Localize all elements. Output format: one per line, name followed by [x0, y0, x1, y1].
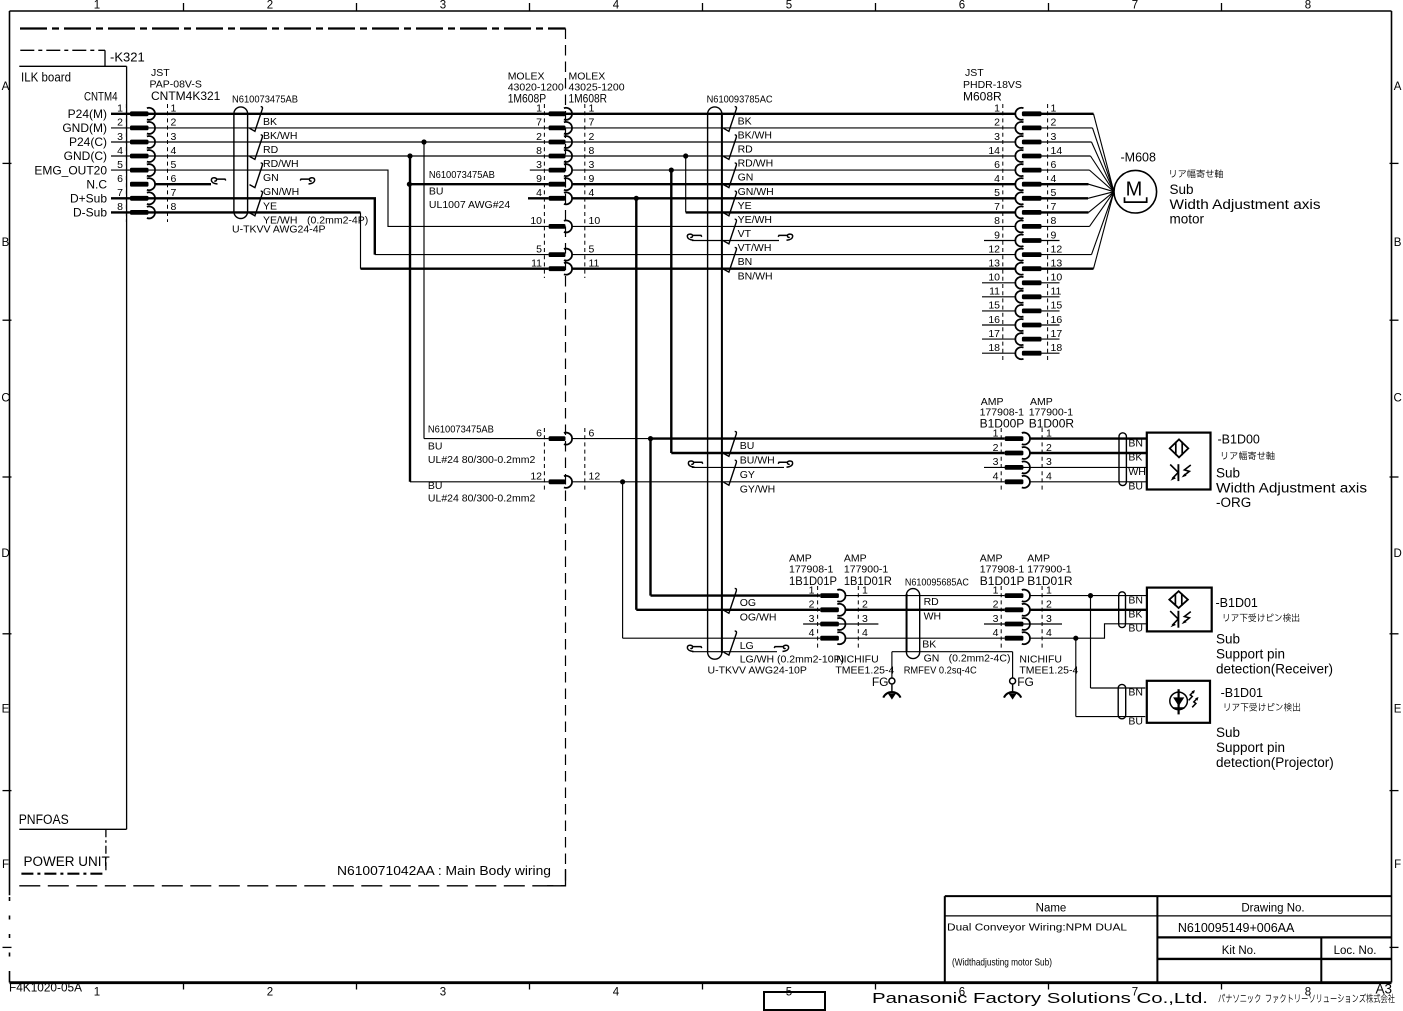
svg-text:C: C — [1, 392, 9, 404]
cable N610073475AB 4P shield oval — [234, 107, 248, 219]
svg-text:F: F — [1394, 859, 1401, 871]
svg-text:N610073475AB: N610073475AB — [232, 94, 298, 106]
svg-text:11: 11 — [531, 258, 542, 270]
svg-text:JST: JST — [965, 67, 984, 79]
node RD/WH branch junction — [407, 153, 412, 158]
sensor lead oval B1D00 — [1119, 433, 1126, 486]
svg-text:RD: RD — [738, 144, 754, 156]
svg-text:10: 10 — [988, 272, 1000, 284]
svg-text:3: 3 — [589, 159, 595, 171]
svg-text:N610073475AB: N610073475AB — [429, 169, 495, 181]
svg-text:Sub: Sub — [1170, 182, 1194, 197]
wire LG to 1B1D01P pin 4 — [623, 637, 821, 639]
svg-text:Drawing No.: Drawing No. — [1241, 902, 1304, 914]
svg-text:1: 1 — [171, 103, 177, 115]
svg-text:7: 7 — [536, 117, 542, 129]
svg-text:4: 4 — [589, 187, 595, 199]
cable N610095685AC 4C shield oval — [906, 589, 919, 659]
svg-text:BU: BU — [428, 480, 443, 492]
sensor lead oval B1D01 receiver — [1119, 592, 1126, 628]
svg-text:3: 3 — [993, 613, 999, 625]
svg-text:GN/WH: GN/WH — [263, 186, 299, 198]
svg-text:RD/WH: RD/WH — [263, 158, 299, 170]
ground FG — [1010, 678, 1016, 684]
node RD branch junction — [421, 139, 426, 144]
svg-text:6: 6 — [117, 173, 123, 185]
svg-text:8: 8 — [589, 145, 595, 157]
svg-text:D+Sub: D+Sub — [70, 192, 107, 206]
svg-text:M: M — [1126, 179, 1143, 201]
svg-text:WH: WH — [924, 610, 942, 622]
svg-text:1: 1 — [94, 986, 100, 998]
svg-text:3: 3 — [117, 131, 123, 143]
svg-text:1: 1 — [994, 103, 1000, 115]
svg-text:F4K1020-05A: F4K1020-05A — [9, 982, 82, 994]
node YE branch junction — [634, 196, 639, 201]
svg-text:4: 4 — [1046, 471, 1052, 483]
svg-text:GY: GY — [740, 469, 755, 481]
svg-text:9: 9 — [589, 173, 595, 185]
connector B1D00P / B1D00R AMP 177908-1 / 177900-1 — [1000, 428, 1002, 492]
wire GN to FG grounds — [892, 651, 1013, 653]
svg-text:2: 2 — [862, 599, 868, 611]
svg-text:GN: GN — [738, 172, 754, 184]
wire BN/WH 1M608R pin 11 to M608R pin 13 — [572, 268, 1016, 270]
svg-text:D-Sub: D-Sub — [73, 206, 107, 220]
svg-text:13: 13 — [1051, 258, 1063, 270]
svg-text:motor: motor — [1170, 211, 1205, 226]
motor M608 — [1114, 170, 1157, 213]
svg-text:4: 4 — [536, 187, 542, 199]
svg-text:3: 3 — [994, 131, 1000, 143]
svg-text:12: 12 — [1051, 243, 1063, 255]
svg-text:A3: A3 — [1376, 981, 1393, 996]
svg-text:BK: BK — [922, 639, 936, 651]
svg-text:BU: BU — [740, 440, 755, 452]
svg-text:BU: BU — [1128, 715, 1143, 727]
svg-text:VT: VT — [738, 228, 752, 240]
svg-text:16: 16 — [1051, 314, 1063, 326]
svg-text:2: 2 — [1046, 599, 1052, 611]
svg-text:YE/WH: YE/WH — [738, 214, 772, 226]
svg-text:17: 17 — [988, 328, 1000, 340]
svg-text:TMEE1.25-4: TMEE1.25-4 — [835, 665, 894, 677]
svg-text:2: 2 — [993, 442, 999, 454]
svg-text:2: 2 — [171, 117, 177, 129]
svg-text:Support pin: Support pin — [1216, 647, 1285, 662]
svg-text:14: 14 — [988, 145, 1000, 157]
svg-text:GN: GN — [924, 653, 940, 665]
wire 1M608P pin 4 stub — [528, 197, 549, 199]
svg-text:2: 2 — [1046, 442, 1052, 454]
svg-text:A: A — [1394, 81, 1402, 93]
wire YE 1M608R pin 4 to M608R pin 5 — [572, 197, 1016, 199]
wire GN/WH 1M608R pin 9 to M608R pin 4 — [572, 183, 1016, 185]
wire M608R unconnected pin stubs — [982, 282, 1016, 284]
svg-text:POWER UNIT: POWER UNIT — [24, 854, 110, 869]
wire RD/WH branch to 1M608P pin 12 — [409, 156, 411, 482]
svg-text:14: 14 — [1051, 145, 1063, 157]
svg-text:3: 3 — [1046, 613, 1052, 625]
connector J1 CNTM4 / CNTM4K321 JST PAP-08V-S — [125, 104, 127, 222]
svg-text:3: 3 — [536, 159, 542, 171]
svg-text:5: 5 — [589, 243, 595, 255]
svg-text:BK: BK — [738, 115, 752, 127]
wire RD P24(C) net — [111, 141, 1016, 143]
node BU branch junction — [648, 436, 653, 441]
svg-text:GY/WH: GY/WH — [740, 483, 776, 495]
svg-text:5: 5 — [1051, 187, 1057, 199]
svg-text:7: 7 — [1051, 201, 1057, 213]
svg-text:BN: BN — [738, 256, 753, 268]
svg-text:RD: RD — [924, 596, 940, 608]
svg-text:-K321: -K321 — [110, 50, 145, 65]
svg-text:BU: BU — [428, 440, 443, 452]
svg-text:18: 18 — [1051, 342, 1063, 354]
sensor B1D01 receiver box — [1147, 588, 1212, 632]
svg-text:M608R: M608R — [963, 90, 1002, 104]
svg-text:1: 1 — [1051, 103, 1057, 115]
svg-text:LG: LG — [740, 640, 754, 652]
wire BU B1D00R pin 4 to sensor — [1030, 481, 1147, 483]
svg-text:8: 8 — [536, 145, 542, 157]
svg-text:15: 15 — [1051, 300, 1063, 312]
svg-text:17: 17 — [1051, 328, 1063, 340]
svg-text:11: 11 — [1051, 286, 1062, 298]
svg-text:Sub: Sub — [1216, 632, 1240, 647]
svg-text:PNFOAS: PNFOAS — [19, 812, 69, 827]
node BN branch junction — [1088, 593, 1093, 598]
svg-text:BK/WH: BK/WH — [263, 130, 297, 142]
svg-text:2: 2 — [809, 599, 815, 611]
svg-text:B1D01P: B1D01P — [980, 574, 1025, 588]
svg-text:B1D00P: B1D00P — [980, 417, 1025, 431]
svg-text:N610093785AC: N610093785AC — [707, 94, 773, 106]
svg-text:8: 8 — [1051, 215, 1057, 227]
svg-text:(Widthadjusting motor Sub): (Widthadjusting motor Sub) — [952, 956, 1052, 968]
svg-text:4: 4 — [117, 145, 123, 157]
svg-text:Width Adjustment axis: Width Adjustment axis — [1216, 480, 1367, 495]
svg-text:6: 6 — [589, 427, 595, 439]
svg-text:UL#24 80/300-0.2mm2: UL#24 80/300-0.2mm2 — [428, 493, 536, 505]
svg-text:RMFEV 0.2sq-4C: RMFEV 0.2sq-4C — [904, 665, 977, 677]
wire EMG_OUT20 GN net to 1M608P pin 10 — [111, 170, 549, 226]
wire YE/WH branch down — [685, 156, 687, 212]
wire OG branch down — [649, 439, 651, 596]
svg-text:7: 7 — [589, 117, 595, 129]
svg-text:BN: BN — [1128, 437, 1143, 449]
svg-text:9: 9 — [994, 229, 1000, 241]
svg-text:12: 12 — [988, 243, 1000, 255]
svg-text:3: 3 — [1046, 456, 1052, 468]
sensor B1D00 photoelectric receiver box — [1147, 433, 1211, 490]
svg-text:4: 4 — [613, 986, 620, 998]
svg-text:6: 6 — [171, 173, 177, 185]
svg-text:Name: Name — [1036, 902, 1067, 914]
svg-text:1M608P: 1M608P — [508, 92, 547, 106]
sensor B1D01 projector box — [1147, 681, 1210, 723]
node BU branch junction lower — [1073, 636, 1078, 641]
svg-text:5: 5 — [117, 159, 123, 171]
svg-text:Loc. No.: Loc. No. — [1334, 945, 1377, 957]
svg-text:6: 6 — [959, 0, 965, 12]
svg-text:10: 10 — [589, 215, 601, 227]
svg-text:CNTM4K321: CNTM4K321 — [151, 89, 221, 103]
wire WH B1D00 pin 3 crossing — [984, 466, 1147, 468]
svg-text:U-TKVV AWG24-10P: U-TKVV AWG24-10P — [708, 665, 807, 677]
connector M608R JST PHDR-18VS — [1002, 104, 1004, 360]
svg-text:OG: OG — [740, 597, 756, 609]
wire fan to motor M608 — [1042, 113, 1094, 115]
svg-text:A: A — [2, 81, 10, 93]
svg-text:10: 10 — [1051, 272, 1063, 284]
svg-text:10: 10 — [530, 215, 542, 227]
svg-text:4: 4 — [993, 627, 999, 639]
svg-text:7: 7 — [994, 201, 1000, 213]
wire LG branch down — [622, 482, 624, 638]
wire GN branch down to BU/WH row — [670, 170, 672, 453]
wire LG/WH cut segment with hooks — [692, 651, 777, 653]
svg-text:E: E — [2, 704, 10, 716]
wire 1B1D01 pin 3 stub — [803, 623, 878, 625]
svg-text:Sub: Sub — [1216, 725, 1240, 740]
wire BU net to B1D00 — [424, 438, 549, 440]
svg-text:WH: WH — [1128, 466, 1146, 478]
svg-text:3: 3 — [993, 456, 999, 468]
svg-text:(0.2mm2-10P): (0.2mm2-10P) — [777, 653, 844, 665]
svg-text:BU: BU — [1128, 623, 1143, 635]
svg-text:Dual Conveyor Wiring:NPM DUAL: Dual Conveyor Wiring:NPM DUAL — [947, 922, 1127, 934]
svg-text:1: 1 — [94, 0, 100, 12]
svg-text:6: 6 — [536, 427, 542, 439]
svg-text:3: 3 — [862, 613, 868, 625]
svg-text:12: 12 — [530, 471, 542, 483]
svg-text:8: 8 — [994, 215, 1000, 227]
svg-text:Sub: Sub — [1216, 466, 1240, 481]
svg-text:9: 9 — [1051, 229, 1057, 241]
svg-text:GN: GN — [263, 172, 279, 184]
svg-text:4: 4 — [613, 0, 620, 12]
node RD/WH branch to pin 9 junction — [407, 182, 412, 187]
svg-text:7: 7 — [171, 187, 177, 199]
svg-text:D: D — [1, 548, 9, 560]
wire 1M608P pin 3 stub — [530, 169, 549, 171]
svg-text:detection(Receiver): detection(Receiver) — [1216, 661, 1333, 676]
wire BK/WH GND(M) net — [111, 127, 1016, 129]
svg-text:4: 4 — [171, 145, 177, 157]
svg-text:-B1D01: -B1D01 — [1221, 686, 1263, 700]
svg-text:-ORG: -ORG — [1216, 495, 1251, 510]
svg-text:C: C — [1393, 392, 1401, 404]
svg-text:6: 6 — [1051, 159, 1057, 171]
svg-text:8: 8 — [171, 201, 177, 213]
svg-text:Width Adjustment axis: Width Adjustment axis — [1170, 197, 1321, 212]
svg-text:4: 4 — [862, 627, 868, 639]
svg-text:4: 4 — [994, 173, 1000, 185]
machine boundary dash-dot outline — [20, 27, 566, 29]
wire GN/WH cut end hook — [300, 178, 314, 184]
svg-text:BK: BK — [1128, 609, 1142, 621]
svg-text:8: 8 — [1305, 0, 1311, 12]
svg-text:3: 3 — [171, 131, 177, 143]
wire YE/WH to M608R pin 7 — [686, 211, 1016, 213]
svg-text:VT/WH: VT/WH — [738, 242, 772, 254]
svg-text:9: 9 — [536, 173, 542, 185]
svg-text:BN: BN — [1128, 687, 1143, 699]
svg-text:5: 5 — [171, 159, 177, 171]
svg-text:detection(Projector): detection(Projector) — [1216, 755, 1334, 770]
svg-text:2: 2 — [117, 117, 123, 129]
svg-text:UL#24 80/300-0.2mm2: UL#24 80/300-0.2mm2 — [428, 454, 536, 466]
svg-text:4: 4 — [1046, 627, 1052, 639]
svg-text:E: E — [1394, 704, 1402, 716]
svg-text:N.C: N.C — [86, 177, 107, 191]
svg-text:BN/WH: BN/WH — [738, 270, 773, 282]
svg-text:18: 18 — [988, 342, 1000, 354]
ground FG — [889, 678, 895, 684]
svg-text:2: 2 — [993, 599, 999, 611]
svg-text:12: 12 — [589, 471, 601, 483]
svg-text:1B1D01P: 1B1D01P — [789, 574, 837, 588]
svg-text:5: 5 — [994, 187, 1000, 199]
svg-text:2: 2 — [267, 0, 273, 12]
svg-text:CNTM4: CNTM4 — [84, 90, 118, 104]
svg-text:D: D — [1393, 548, 1401, 560]
title block — [945, 895, 1392, 897]
node GN branch junction — [669, 168, 674, 173]
wire VT/WH cut segment with hooks — [692, 240, 779, 242]
svg-text:BK: BK — [1128, 452, 1142, 464]
svg-text:8: 8 — [117, 201, 123, 213]
wire M608R pin 9 stub — [984, 240, 1016, 242]
wire BK B1D00R pin 2 to sensor — [1030, 452, 1147, 454]
svg-text:3: 3 — [809, 613, 815, 625]
svg-text:Support pin: Support pin — [1216, 740, 1285, 755]
wire BK P24(M) net — [111, 113, 1016, 115]
svg-text:5: 5 — [536, 243, 542, 255]
wire D-Sub YE/WH jog to 1M608P pin 11 — [111, 211, 361, 213]
svg-text:1: 1 — [117, 103, 123, 115]
svg-text:1M608R: 1M608R — [569, 92, 608, 106]
svg-text:15: 15 — [988, 300, 1000, 312]
svg-text:F: F — [2, 859, 9, 871]
svg-text:N610071042AA : Main Body wirin: N610071042AA : Main Body wiring — [337, 863, 551, 878]
svg-text:YE: YE — [738, 200, 752, 212]
wire BN 1M608R pin 5 to M608R pin 12 — [572, 254, 1016, 256]
svg-text:JST: JST — [151, 67, 170, 79]
svg-text:1B1D01R: 1B1D01R — [844, 574, 892, 588]
connector 1M608P / 1M608R MOLEX 43020-1200 / 43025-1200 — [543, 104, 545, 278]
svg-text:-B1D00: -B1D00 — [1218, 433, 1260, 447]
svg-text:BK/WH: BK/WH — [738, 130, 772, 142]
svg-text:3: 3 — [440, 0, 446, 12]
node RD/WH to YE/WH junction — [683, 153, 688, 158]
svg-text:7: 7 — [117, 187, 123, 199]
svg-text:4: 4 — [1051, 173, 1057, 185]
svg-text:3: 3 — [440, 986, 446, 998]
svg-text:16: 16 — [988, 314, 1000, 326]
ILK board K321 outline — [20, 49, 105, 51]
svg-text:N610073475AB: N610073475AB — [428, 424, 494, 436]
svg-text:-M608: -M608 — [1121, 151, 1156, 165]
wire D+Sub YE jog to 1M608P pin 5 — [111, 198, 375, 254]
svg-text:2: 2 — [1051, 117, 1057, 129]
wire YE branch down to OG/WH row — [635, 198, 637, 610]
wire OG/WH to 1B1D01P pin 2 — [636, 609, 820, 611]
svg-text:RD: RD — [263, 144, 279, 156]
svg-text:4: 4 — [993, 471, 999, 483]
svg-text:GN/WH: GN/WH — [738, 186, 774, 198]
svg-text:EMG_OUT20: EMG_OUT20 — [34, 163, 107, 177]
svg-text:11: 11 — [989, 286, 1000, 298]
svg-text:ILK board: ILK board — [21, 70, 71, 85]
svg-text:N610095149+006AA: N610095149+006AA — [1178, 921, 1295, 935]
svg-text:2: 2 — [536, 131, 542, 143]
svg-text:BU: BU — [429, 186, 444, 198]
wire BN B1D00R pin 1 to sensor — [1030, 437, 1147, 439]
svg-text:N610095685AC: N610095685AC — [905, 577, 969, 589]
connector 1B1D01P / 1B1D01R AMP 177908-1 / 177900-1 — [817, 586, 819, 648]
wire GN net 1M608R pin 3 to M608R pin 6 — [572, 169, 1016, 171]
svg-text:BK: BK — [263, 116, 277, 128]
svg-text:YE: YE — [263, 200, 277, 212]
svg-text:B1D00R: B1D00R — [1029, 417, 1075, 431]
svg-text:BU: BU — [1128, 481, 1143, 493]
svg-text:FG: FG — [872, 675, 889, 689]
wire OG to 1B1D01P pin 1 — [651, 594, 821, 596]
wire B1D01 pin 3 stub — [984, 623, 1062, 625]
wire GN/WH to 1M608P pin 9 — [409, 183, 548, 185]
svg-text:5: 5 — [786, 0, 792, 12]
node GY/WH branch junction — [620, 479, 625, 484]
wire BN branch to projector — [1090, 596, 1092, 688]
svg-text:BN: BN — [1128, 594, 1143, 606]
motor labels — [1170, 169, 1222, 178]
svg-text:3: 3 — [1051, 131, 1057, 143]
svg-text:13: 13 — [988, 258, 1000, 270]
connector B1D01P / B1D01R AMP 177908-1 / 177900-1 — [1000, 586, 1002, 648]
svg-text:2: 2 — [267, 986, 273, 998]
svg-text:U-TKVV AWG24-4P: U-TKVV AWG24-4P — [232, 224, 326, 236]
wire GY/WH net to B1D00P pin 4 — [410, 481, 549, 483]
svg-text:2: 2 — [994, 117, 1000, 129]
svg-text:OG/WH: OG/WH — [740, 611, 777, 623]
bottom small box — [764, 992, 825, 1010]
svg-text:FG: FG — [1017, 675, 1034, 689]
wire RD branch to 1M608P pin 6 (BU) — [423, 142, 425, 439]
wire GND(C) RD/WH net — [111, 155, 1016, 157]
wire BU/WH to B1D00P pin 2 — [671, 452, 1004, 454]
wire GY cut segment with hooks — [692, 466, 784, 468]
svg-text:11: 11 — [589, 258, 600, 270]
svg-text:GND(M): GND(M) — [62, 121, 107, 135]
wire WH/BK net — [846, 609, 1005, 611]
svg-text:B: B — [2, 237, 10, 249]
svg-text:LG/WH: LG/WH — [740, 653, 774, 665]
svg-text:RD/WH: RD/WH — [738, 158, 774, 170]
svg-text:Panasonic Factory Solutions Co: Panasonic Factory Solutions Co.,Ltd. — [872, 991, 1208, 1007]
svg-text:-B1D01: -B1D01 — [1216, 596, 1258, 610]
svg-text:6: 6 — [994, 159, 1000, 171]
svg-text:2: 2 — [589, 131, 595, 143]
svg-text:B1D01R: B1D01R — [1027, 574, 1073, 588]
cable N610093785AC 12P + U-TKVV 10P long shield oval — [708, 107, 722, 659]
wire N.C stub with hook — [155, 183, 212, 185]
svg-text:7: 7 — [1132, 0, 1138, 12]
svg-text:GND(C): GND(C) — [64, 149, 107, 163]
wire BU branch to projector — [1075, 638, 1077, 716]
wire VT 1M608R pin 10 to M608R pin 8 — [572, 225, 1016, 227]
